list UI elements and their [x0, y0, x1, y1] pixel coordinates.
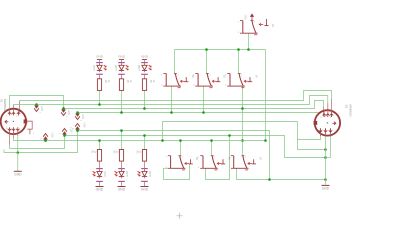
X2 pin lead b3: [330, 128, 332, 137]
svg-text:1k: 1k: [116, 151, 118, 154]
svg-text:R6: R6: [149, 80, 151, 84]
node LED1/F: [98, 139, 101, 142]
resistor R5: [119, 79, 123, 91]
node LED4/C1: [98, 103, 101, 106]
svg-text:S1: S1: [271, 24, 274, 28]
wire bus C2 to X2: [64, 101, 324, 109]
svg-text:GND: GND: [96, 55, 104, 59]
svg-text:1: 1: [198, 157, 200, 159]
pin bar: [141, 73, 148, 75]
resistor R2: [119, 150, 123, 162]
connector X2: [315, 110, 340, 135]
svg-text:VCC: VCC: [245, 14, 247, 19]
node LED5/C3: [120, 111, 123, 114]
supply +12V (up): [43, 136, 48, 139]
svg-text:1: 1: [33, 133, 35, 135]
X2 pin lead 4: [318, 113, 320, 116]
wire S4 bottom long: [242, 86, 244, 155]
wire LED5 to C3: [121, 91, 123, 113]
wire bus B to X2: [20, 91, 332, 101]
resistor R3: [142, 150, 146, 162]
X1 pin lead t2: [13, 105, 15, 112]
svg-text:GND: GND: [14, 173, 22, 177]
svg-text:GND: GND: [118, 188, 126, 192]
svg-text:R5: R5: [126, 80, 128, 84]
svg-text:3: 3: [161, 85, 163, 87]
switch S4: [229, 74, 231, 87]
svg-text:+: +: [39, 111, 41, 114]
svg-text:2: 2: [241, 75, 243, 77]
ground: [118, 186, 126, 188]
svg-text:3: 3: [229, 167, 231, 169]
node shield/gnd: [324, 148, 327, 151]
ground: [14, 170, 22, 172]
svg-text:GND: GND: [96, 188, 104, 192]
switch S3: [197, 74, 199, 87]
svg-text:2: 2: [182, 157, 184, 159]
wire LED1 to F: [99, 141, 101, 150]
node F arrow4: [44, 139, 47, 142]
svg-text:1: 1: [161, 75, 163, 77]
node U3 gnd vert: [324, 178, 327, 181]
node LED2/D: [120, 129, 123, 132]
X2 pin lead 1: [331, 99, 333, 117]
svg-text:GND: GND: [322, 187, 330, 191]
svg-text:3: 3: [198, 167, 200, 169]
svg-text:+: +: [40, 137, 42, 140]
X1 pin stubs: [9, 109, 11, 113]
supply VCC: [251, 17, 253, 21]
supply +12V (down): [61, 110, 66, 113]
svg-text:1k: 1k: [107, 80, 109, 83]
node top bus S1: [247, 48, 250, 51]
pin bar: [118, 62, 125, 64]
svg-text:R2: R2: [113, 151, 115, 155]
node top bus S3: [205, 48, 208, 51]
supply +12V (down): [75, 114, 80, 117]
ground: [96, 186, 104, 188]
node E gnd vert: [324, 156, 327, 159]
LED LED2: [119, 171, 124, 176]
pin bar: [118, 73, 125, 75]
resistor R1: [97, 150, 101, 162]
svg-text:MAB5SH: MAB5SH: [3, 99, 7, 111]
wire LED4 to C1: [99, 91, 101, 105]
switch S1: [242, 21, 244, 34]
switch S7: [233, 156, 235, 169]
node S4/C2: [241, 107, 244, 110]
svg-text:GND: GND: [141, 188, 149, 192]
wire D to gnd jog: [4, 131, 78, 153]
svg-text:1: 1: [238, 22, 240, 24]
svg-text:3: 3: [238, 32, 240, 34]
svg-text:MAB5SV: MAB5SV: [349, 105, 353, 117]
svg-text:LED4: LED4: [93, 64, 96, 71]
X2 pin lead 2: [327, 103, 329, 117]
svg-text:+: +: [59, 132, 61, 135]
LED LED6: [142, 65, 147, 70]
wire X2 pin3 down: [330, 137, 332, 158]
wire S4 top lead: [238, 50, 240, 74]
svg-text:LED3: LED3: [149, 171, 152, 178]
X1 shield loop: [27, 121, 32, 129]
ground: [322, 184, 330, 186]
pin bar: [118, 180, 125, 182]
node F long vert: [264, 139, 267, 142]
svg-text:1k: 1k: [139, 151, 141, 154]
svg-text:+: +: [80, 119, 82, 122]
wire S3 top lead: [206, 50, 208, 74]
svg-text:1k: 1k: [152, 80, 154, 83]
LED LED3: [142, 171, 147, 176]
node LED6/C2: [143, 107, 146, 110]
svg-text:R4: R4: [104, 80, 106, 84]
svg-text:3: 3: [193, 85, 195, 87]
pin bar: [141, 168, 148, 170]
node U3/D: [268, 178, 271, 181]
svg-text:LED6: LED6: [138, 64, 141, 71]
svg-text:1k: 1k: [94, 151, 96, 154]
X2 pins: [323, 114, 326, 117]
pin bar: [96, 168, 103, 170]
wire X1 gnd lead: [17, 136, 19, 171]
wire bus C3 to X2: [78, 112, 319, 114]
svg-text:1: 1: [225, 75, 227, 77]
origin cross: [177, 213, 183, 219]
pin bar: [141, 180, 148, 182]
node U2/E: [228, 134, 231, 137]
node C2 corner: [62, 107, 65, 110]
wire S2 top lead: [174, 50, 176, 74]
node S3/C3: [202, 111, 205, 114]
node F/S5: [179, 139, 182, 142]
LED LED4: [97, 65, 102, 70]
wire S5 top lead: [180, 141, 182, 156]
wire S2 bottom to C3: [171, 86, 173, 112]
node D arrow6: [76, 129, 79, 132]
svg-text:1: 1: [193, 75, 195, 77]
svg-text:+12V: +12V: [83, 122, 85, 128]
wire S5 stub: [164, 167, 168, 169]
wire E2 down to loop: [297, 122, 299, 140]
X2 pin lead b1: [320, 128, 322, 136]
wire bus D: [78, 131, 270, 180]
wire top bus: [175, 49, 266, 51]
pin bar: [96, 180, 103, 182]
svg-text:2: 2: [254, 22, 256, 24]
ground: [141, 186, 149, 188]
node F/S6: [210, 139, 213, 142]
svg-text:+12V: +12V: [70, 127, 72, 133]
X1 pin lead t3: [19, 101, 21, 112]
svg-text:4: 4: [320, 117, 322, 119]
wire LED3 to E: [144, 136, 146, 150]
pin bar: [141, 62, 148, 64]
wire bus F from X1: [14, 138, 266, 141]
svg-text:X2: X2: [345, 105, 349, 109]
LED LED5: [119, 65, 124, 70]
X2 pin lead b2: [325, 128, 327, 136]
resistor R4: [97, 79, 101, 91]
wire X2 pin5 shield loop: [298, 136, 326, 150]
svg-text:GND: GND: [141, 55, 149, 59]
svg-text:2: 2: [209, 75, 211, 77]
wire bus C1 to X2: [14, 96, 328, 105]
svg-text:2: 2: [16, 115, 18, 117]
svg-text:LED2: LED2: [126, 171, 129, 178]
svg-text:2: 2: [245, 157, 247, 159]
node S4/F: [241, 139, 244, 142]
switch S5: [170, 156, 172, 169]
svg-text:3: 3: [225, 85, 227, 87]
svg-text:S7: S7: [258, 157, 261, 161]
svg-text:S4: S4: [255, 75, 258, 79]
switch S2: [165, 74, 167, 87]
svg-text:2: 2: [325, 116, 327, 118]
supply +12V (up): [62, 131, 67, 134]
node E2/F: [161, 139, 164, 142]
svg-text:GND: GND: [118, 55, 126, 59]
resistor R6: [142, 79, 146, 91]
LED LED1: [97, 171, 102, 176]
X1 pins: [8, 112, 11, 115]
node jog/gnd lead: [17, 151, 20, 154]
wire S3 bottom to C3: [203, 86, 205, 112]
svg-text:2: 2: [177, 75, 179, 77]
svg-text:LED5: LED5: [115, 64, 118, 71]
pin bar: [96, 73, 103, 75]
node S2/C3: [170, 111, 173, 114]
svg-text:1: 1: [6, 115, 8, 117]
supply +12V (down): [34, 106, 39, 109]
wire LED6 to C2: [144, 91, 146, 109]
svg-text:+12V: +12V: [51, 132, 53, 138]
pin bar: [96, 62, 103, 64]
svg-text:2: 2: [214, 157, 216, 159]
wire X1 pin4 to bus C2: [10, 96, 64, 109]
svg-text:R1: R1: [91, 151, 93, 155]
wire S7 U to gnd: [237, 168, 326, 179]
supply +12V (up): [75, 126, 80, 129]
switch S6: [202, 156, 204, 169]
wire bus H: [10, 136, 65, 149]
svg-text:1k: 1k: [129, 80, 131, 83]
wire to E: [326, 157, 331, 159]
wire bus E: [65, 136, 326, 158]
svg-text:5: 5: [330, 117, 332, 119]
svg-text:R3: R3: [136, 151, 138, 155]
wire LED2 to D: [121, 131, 123, 150]
wire S6 U: [206, 136, 230, 180]
svg-text:LED1: LED1: [104, 171, 107, 178]
svg-text:+: +: [66, 115, 68, 118]
pin bar: [118, 168, 125, 170]
wire S6 top lead: [211, 141, 213, 156]
wire E2 riser: [163, 122, 298, 141]
wire long vertical: [265, 50, 267, 141]
connector X1: [1, 109, 26, 134]
svg-text:+: +: [72, 127, 74, 130]
svg-text:4: 4: [11, 114, 13, 116]
wire S5 U: [164, 164, 190, 180]
X2 pin lead 3: [323, 107, 325, 117]
wire S1 bottom lead: [248, 33, 250, 49]
wire X2 gnd vertical: [325, 135, 327, 185]
node top bus S4: [237, 48, 240, 51]
svg-text:1: 1: [166, 157, 168, 159]
node LED3/E: [143, 134, 146, 137]
